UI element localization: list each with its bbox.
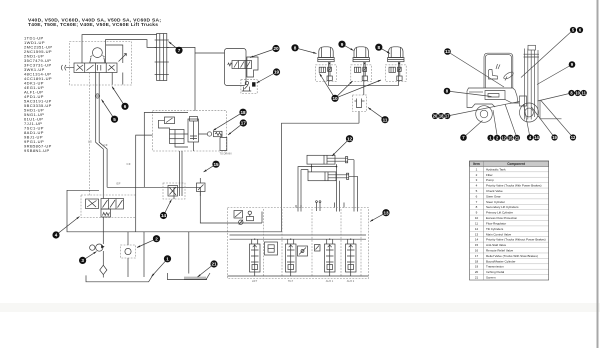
title block xyxy=(28,17,161,28)
svg-text:Boost/Master Cylinder: Boost/Master Cylinder xyxy=(486,259,516,263)
forklift callout 9 xyxy=(569,61,576,68)
svg-text:4: 4 xyxy=(55,233,58,238)
svg-text:AUX 2: AUX 2 xyxy=(347,279,355,283)
svg-text:Steer Gear: Steer Gear xyxy=(486,194,501,198)
wire filter lines xyxy=(127,232,129,277)
svg-text:13: 13 xyxy=(475,232,479,236)
wire tilt head side xyxy=(298,164,337,211)
leader to item 3 xyxy=(83,251,97,261)
svg-text:14: 14 xyxy=(161,213,167,218)
wire steer gear top loop xyxy=(82,35,157,63)
forklift hood and body xyxy=(484,88,518,103)
svg-text:Transmission: Transmission xyxy=(486,265,504,269)
wire V14 link xyxy=(173,187,175,199)
svg-text:17: 17 xyxy=(241,121,247,126)
svg-text:21: 21 xyxy=(211,262,217,267)
port terminals xyxy=(316,201,318,203)
lift cylinder C3 xyxy=(388,47,404,62)
callout 8 xyxy=(291,44,298,51)
svg-text:17: 17 xyxy=(475,254,479,258)
svg-text:8: 8 xyxy=(294,45,297,50)
callout 12 xyxy=(346,135,353,142)
forklift rear wheel xyxy=(476,106,493,123)
forklift steering wheel and column xyxy=(503,71,514,81)
svg-text:19: 19 xyxy=(552,135,557,140)
wire steer gear second loop xyxy=(106,40,157,63)
svg-text:Relief Valve (Trucks With Slow: Relief Valve (Trucks With Slow Brakes) xyxy=(486,254,538,258)
wire main pressure riser xyxy=(282,123,360,232)
component table xyxy=(470,161,549,280)
wire priority to pump xyxy=(102,217,104,244)
forklift callout 7 xyxy=(460,134,467,141)
wire tank return lines from steer box xyxy=(136,135,153,232)
svg-text:21: 21 xyxy=(515,135,520,140)
forklift callout 2 xyxy=(494,135,500,141)
gallery lines xyxy=(230,235,367,239)
callout 17 xyxy=(240,119,247,126)
svg-text:Item: Item xyxy=(473,162,480,166)
wire drop pair to V14 xyxy=(180,151,183,196)
leader to item 20 xyxy=(250,49,276,59)
suction filter F2 xyxy=(121,245,136,258)
main control valve V13 dashed enclosure xyxy=(228,208,369,279)
steer control valve V1 xyxy=(74,63,117,73)
relief valve block V16 xyxy=(228,61,252,69)
svg-text:AUX 1: AUX 1 xyxy=(326,279,334,283)
priority valve spring box xyxy=(101,209,111,217)
wire return drop to tank xyxy=(143,232,145,277)
wire tilt head side second xyxy=(301,170,308,212)
forklift callout 18 xyxy=(438,113,444,119)
svg-text:14: 14 xyxy=(475,238,479,242)
svg-text:Anti-Stall Valve: Anti-Stall Valve xyxy=(486,243,506,247)
svg-text:18: 18 xyxy=(439,114,444,119)
wire EF return header xyxy=(107,187,262,223)
svg-text:LS: LS xyxy=(88,139,92,143)
pilot check box xyxy=(265,242,278,255)
spool port stubs AUX 1 xyxy=(327,239,333,276)
leader to item 5 xyxy=(101,99,115,119)
forklift callout 5 xyxy=(570,27,576,33)
leader to item 11 xyxy=(367,107,385,120)
svg-text:TILT: TILT xyxy=(288,279,294,283)
forklift callout 4 xyxy=(527,134,533,140)
svg-text:16: 16 xyxy=(475,249,479,253)
svg-text:11: 11 xyxy=(475,221,478,225)
wire return to screen tank xyxy=(188,232,190,274)
excess flow protection valve V10-3 xyxy=(385,65,406,82)
forklift levers xyxy=(496,64,500,69)
callout 20 xyxy=(272,45,279,52)
svg-text:9: 9 xyxy=(341,42,344,47)
svg-text:Check Valve: Check Valve xyxy=(486,189,503,193)
leader to item 7 xyxy=(168,41,179,50)
svg-text:Flow Regulator: Flow Regulator xyxy=(486,221,506,225)
forklift callout 19 xyxy=(551,134,557,140)
leader to forklift items 19 xyxy=(532,107,555,138)
inline check valve xyxy=(100,265,107,274)
svg-text:12: 12 xyxy=(571,135,576,140)
leader to forklift item 13 xyxy=(448,52,505,88)
leader to forklift items 20 18 17 xyxy=(447,102,519,117)
svg-text:CF: CF xyxy=(104,143,108,147)
leader to forklift items second xyxy=(493,110,497,135)
callout 10 xyxy=(331,95,338,102)
leader to item 13 xyxy=(370,213,386,223)
forklift chassis bottom xyxy=(472,100,519,108)
tilt cylinder C12b xyxy=(308,172,349,181)
leader to item 1 xyxy=(151,259,168,277)
callout 6 xyxy=(121,103,128,110)
svg-text:Priority Valve (Trucks Without: Priority Valve (Trucks Without Power Bra… xyxy=(486,238,546,242)
relief pilot section with solenoid 19 xyxy=(241,80,257,94)
hydraulic tank T1 xyxy=(86,275,153,281)
wire lift cylinder stem 1 xyxy=(329,62,330,86)
svg-text:11: 11 xyxy=(383,117,388,122)
control spool TILT xyxy=(286,244,297,272)
svg-text:7: 7 xyxy=(178,48,181,53)
leader to forklift items 4 14 xyxy=(524,104,531,138)
callout 3 xyxy=(79,257,86,264)
svg-text:10: 10 xyxy=(332,96,338,101)
priority valve V14 dashed enclosure xyxy=(163,183,185,199)
svg-text:18: 18 xyxy=(475,259,479,263)
anti-stall spool xyxy=(188,117,199,143)
svg-text:19: 19 xyxy=(274,70,280,75)
svg-text:Component: Component xyxy=(507,162,526,166)
svg-text:20: 20 xyxy=(475,270,479,274)
load check fitting xyxy=(315,245,321,252)
svg-text:Main Control Valve: Main Control Valve xyxy=(486,232,511,236)
leader to item 8 xyxy=(379,47,391,54)
callout 13 xyxy=(382,209,389,216)
callout 4 xyxy=(52,231,59,238)
wire regulator down to tilt header xyxy=(358,112,360,124)
leader to forklift items 12 xyxy=(541,100,574,138)
svg-text:9SB8N1-UP: 9SB8N1-UP xyxy=(24,148,50,153)
port stubs on valve top xyxy=(317,203,345,212)
steer gear gerotor pump xyxy=(90,48,105,63)
priority valve V4 dashed enclosure xyxy=(81,195,136,218)
leader to forklift items 5 6 xyxy=(521,30,573,78)
forklift callout 20 xyxy=(432,113,438,119)
priority valve relief section xyxy=(86,199,99,209)
orifice and check fitting xyxy=(207,131,222,136)
forklift callout 8 xyxy=(444,88,451,95)
leader to item 12 xyxy=(331,139,349,157)
forklift seat xyxy=(489,70,498,80)
steer cylinder C7 xyxy=(155,34,169,81)
compensator arrow xyxy=(119,54,127,62)
anti-stall valve V15 xyxy=(197,178,206,196)
svg-text:Inching Pedal: Inching Pedal xyxy=(486,270,505,274)
svg-text:LIFT: LIFT xyxy=(252,279,258,283)
svg-text:12: 12 xyxy=(347,136,353,141)
excess flow protection valve V10-2 xyxy=(351,65,372,82)
svg-text:17: 17 xyxy=(445,114,450,119)
forklift callout 17 xyxy=(444,113,450,119)
wire check to tank xyxy=(102,275,104,278)
svg-text:10: 10 xyxy=(475,216,479,220)
svg-text:21: 21 xyxy=(475,276,479,280)
control spool AUX 1 xyxy=(325,244,336,272)
svg-text:15: 15 xyxy=(508,135,513,140)
steering supply dashed enclosure xyxy=(153,111,227,151)
svg-text:13: 13 xyxy=(383,210,389,215)
wire pump to check valve xyxy=(102,251,104,265)
svg-text:Secondary Lift Cylinders: Secondary Lift Cylinders xyxy=(486,205,519,209)
svg-text:15: 15 xyxy=(213,162,219,167)
spool port stubs TILT xyxy=(288,239,294,276)
LS pilot dashed line xyxy=(89,73,91,197)
svg-text:14: 14 xyxy=(534,135,539,140)
forklift callout 12 xyxy=(570,134,576,140)
forklift callout 1 xyxy=(487,135,493,141)
callout 15 xyxy=(212,161,219,168)
valve bottom rail xyxy=(228,275,369,277)
hydraulic pump P3 xyxy=(90,244,105,251)
leader to item 6 xyxy=(111,86,125,106)
relief valve flag housing xyxy=(247,57,258,77)
svg-text:11: 11 xyxy=(582,91,587,96)
pilot valve small xyxy=(159,117,175,130)
svg-text:10: 10 xyxy=(575,91,580,96)
svg-text:CF: CF xyxy=(127,162,131,166)
wire steer gear inner branch xyxy=(106,45,123,63)
svg-text:Remote Relief Valve: Remote Relief Valve xyxy=(486,249,513,253)
forklift callout 21 xyxy=(514,135,520,141)
svg-text:Screen: Screen xyxy=(486,276,496,280)
callout 5 xyxy=(111,116,118,123)
forklift callout 6 xyxy=(577,27,583,33)
callout 19 xyxy=(273,68,280,75)
svg-text:8: 8 xyxy=(378,45,381,50)
leader to item 17 xyxy=(227,123,243,136)
svg-text:2: 2 xyxy=(155,236,158,241)
wire manifold to flow regulator xyxy=(363,86,365,95)
spool port stubs LIFT xyxy=(252,239,258,276)
svg-text:Pump: Pump xyxy=(486,178,494,182)
inlet relief section xyxy=(234,211,254,221)
leader to item 9 xyxy=(342,44,354,51)
leader to forklift item 9 xyxy=(537,65,572,85)
valve section dividers xyxy=(264,209,362,276)
forklift front wheel xyxy=(520,103,539,122)
control spool AUX 2 xyxy=(346,244,357,272)
callout 14 xyxy=(160,212,167,219)
callout 21 xyxy=(210,260,217,267)
wire lift manifold xyxy=(329,85,399,87)
callout 1 xyxy=(164,255,171,262)
leader to forklift item 7 xyxy=(464,121,483,138)
svg-text:Steer Cylinder: Steer Cylinder xyxy=(486,200,505,204)
leader to item 4 xyxy=(56,216,80,235)
svg-text:20: 20 xyxy=(433,114,438,119)
svg-text:Filter: Filter xyxy=(486,173,493,177)
forklift callout 11 xyxy=(581,90,587,96)
svg-text:12: 12 xyxy=(501,135,506,140)
excess flow protection valve V10-1 xyxy=(316,65,337,82)
priority valve spool xyxy=(101,199,124,210)
wire steer gear return double line xyxy=(96,73,104,199)
callout 2 xyxy=(153,235,160,242)
unloading valve on return xyxy=(239,220,243,225)
wire lift cylinder stem 2 xyxy=(364,62,365,86)
forklift callout 13 xyxy=(444,48,451,55)
leader to forklift item 8 xyxy=(447,91,492,97)
wire steer cylinder to relief block xyxy=(167,47,195,110)
svg-text:5: 5 xyxy=(113,117,116,122)
wire steering supply drain stub xyxy=(220,137,227,150)
callout 9 xyxy=(338,41,345,48)
svg-text:6: 6 xyxy=(124,104,127,109)
leader to item 15 xyxy=(203,164,216,173)
svg-text:19: 19 xyxy=(475,265,479,269)
junction dots on galleries xyxy=(254,239,255,240)
forklift callout 12 xyxy=(501,135,507,141)
leader lines item 10 xyxy=(320,74,382,99)
callout 8 xyxy=(375,44,382,51)
svg-text:T40E, T50E, TC60E; V40E, V50E,: T40E, T50E, TC60E; V40E, V50E, VC60E Lif… xyxy=(28,22,158,28)
leader to item 18 xyxy=(213,112,243,131)
wire tilt rod side drops xyxy=(337,160,358,212)
wire rod stubs xyxy=(348,160,358,177)
callout 7 xyxy=(175,47,182,54)
svg-text:TO DRAIN: TO DRAIN xyxy=(220,153,232,156)
gear pump stack xyxy=(170,130,185,144)
svg-text:12: 12 xyxy=(475,227,479,231)
callout 18 xyxy=(239,109,246,116)
wire branch to remote relief xyxy=(195,52,225,54)
leader to item 2 xyxy=(137,239,157,249)
screen element 21 xyxy=(184,277,207,280)
svg-text:1: 1 xyxy=(166,256,169,261)
svg-text:15: 15 xyxy=(475,243,479,247)
steer gear U6 dashed enclosure xyxy=(70,42,132,86)
forklift mast xyxy=(525,49,539,120)
wire pump interconnects xyxy=(175,134,207,151)
control spool LIFT xyxy=(250,244,261,272)
callout 11 xyxy=(381,116,388,123)
forklift carriage and forks xyxy=(520,96,527,106)
leader to item 19 xyxy=(256,72,276,84)
leader to forklift items 8 10 11 xyxy=(538,93,572,101)
forklift callout 14 xyxy=(533,134,539,140)
lift cylinder C2 xyxy=(353,47,369,62)
forklift overhead guard xyxy=(484,53,513,88)
lift cylinder C1 xyxy=(318,47,334,62)
svg-text:Hydraulic Tank: Hydraulic Tank xyxy=(486,167,506,171)
return tank T with screen S21 xyxy=(168,273,211,280)
svg-text:EF: EF xyxy=(117,182,121,186)
svg-text:Excess Flow Protection: Excess Flow Protection xyxy=(486,216,518,220)
serial number list xyxy=(24,36,52,154)
wire lift cylinder stem 3 xyxy=(398,62,399,86)
svg-text:20: 20 xyxy=(273,46,279,51)
leader to forklift items 1 2 12 15 21 xyxy=(505,104,517,138)
svg-text:Primary Lift Cylinder: Primary Lift Cylinder xyxy=(486,211,513,215)
leader to item 21 xyxy=(197,264,214,278)
remote relief valve housing xyxy=(225,49,247,86)
svg-text:Tilt Cylinders: Tilt Cylinders xyxy=(486,227,504,231)
svg-text:Priority Valve (Trucks With Po: Priority Valve (Trucks With Power Brakes… xyxy=(486,184,542,188)
flow regulator V11 xyxy=(353,95,367,112)
frame box around pump circuit xyxy=(67,190,282,232)
check valve B5 on return xyxy=(95,94,99,98)
leader to item 8 xyxy=(295,48,317,55)
svg-text:3: 3 xyxy=(81,258,84,263)
steering handwheel symbol xyxy=(61,65,74,70)
spool port stubs AUX 2 xyxy=(348,239,354,276)
forklift counterweight xyxy=(467,88,484,108)
forklift callout 10 xyxy=(575,90,581,96)
forklift callout 8 xyxy=(568,90,574,96)
svg-text:13: 13 xyxy=(445,49,450,54)
forklift callout 15 xyxy=(507,135,513,141)
tilt cylinder C12a xyxy=(307,155,348,164)
aux check valve xyxy=(298,246,308,256)
wire extra tank drop xyxy=(112,73,123,85)
svg-text:18: 18 xyxy=(240,110,246,115)
leader to item 14 xyxy=(164,199,173,215)
